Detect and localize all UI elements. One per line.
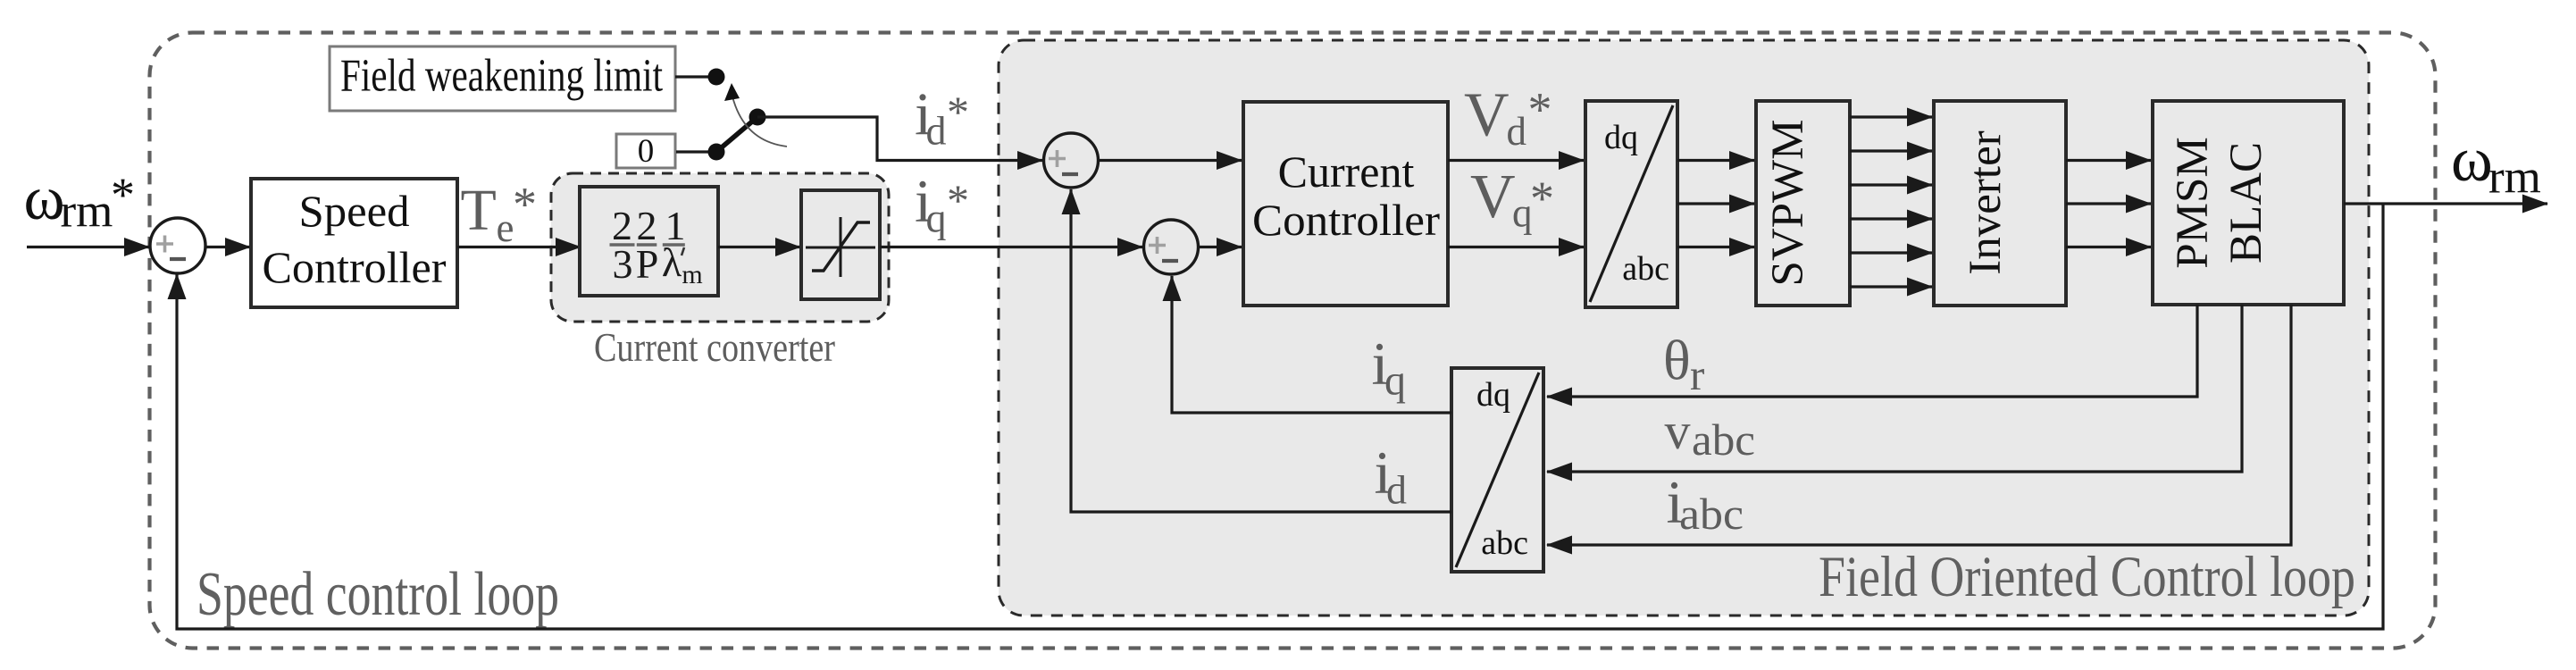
wire: omega_rm* input (27, 246, 149, 248)
svg-text:*: * (947, 87, 969, 137)
svg-text:PMSM: PMSM (2168, 137, 2218, 268)
label: omega_rm output (2451, 125, 2541, 204)
label: iq feedback (1372, 330, 1407, 405)
wire: SVPWM to Inverter gate 2 (1850, 149, 1932, 152)
block: PMSM BLAC (2153, 101, 2344, 305)
svg-text:θ: θ (1663, 329, 1691, 392)
block: feedback dq/abc transform (1451, 368, 1543, 572)
svg-text:*: * (1530, 172, 1554, 225)
block: SVPWM (1756, 101, 1850, 306)
wire: Inverter to PMSM phase a (2066, 159, 2151, 162)
label: i_abc (1667, 468, 1744, 539)
wire: SVPWM to Inverter gate 5 (1850, 251, 1932, 254)
svg-text:rm: rm (61, 186, 113, 238)
wire: fraction to saturation (718, 246, 800, 248)
svg-text:abc: abc (1692, 415, 1755, 465)
svg-text:SVPWM: SVPWM (1763, 119, 1813, 286)
wire: omega_rm output (2344, 202, 2547, 205)
wire: id* to J1 (757, 117, 1042, 161)
svg-text:P: P (636, 241, 659, 287)
svg-text:d: d (1507, 109, 1527, 154)
svg-text:dq: dq (1476, 376, 1510, 414)
summing junction J1 (1044, 133, 1099, 188)
block: Current Controller (1243, 102, 1448, 306)
label: id feedback (1375, 439, 1408, 513)
block: torque-to-current fraction (580, 187, 718, 296)
wire: theta_r feedback (1547, 305, 2197, 397)
block: dq to abc transform (1585, 101, 1677, 307)
svg-text:m: m (682, 260, 702, 289)
label: id* (915, 80, 969, 154)
label: theta_r (1663, 329, 1704, 400)
label: v_abc (1665, 402, 1756, 465)
wire: SVPWM to Inverter gate 1 (1850, 115, 1932, 118)
svg-text:Controller: Controller (263, 242, 447, 292)
svg-text:abc: abc (1481, 524, 1528, 562)
switch lever (716, 117, 757, 152)
wire: Vq* to dq/abc (1448, 246, 1584, 248)
block: Inverter (1934, 101, 2066, 306)
svg-text:q: q (926, 196, 947, 241)
svg-text:abc: abc (1679, 489, 1744, 539)
label: Vd* (1464, 81, 1552, 155)
wire: zero box to switch contact (676, 150, 710, 153)
wire: v_abc feedback (1547, 305, 2242, 472)
node: switch contact upper (708, 69, 725, 86)
svg-text:Field weakening limit: Field weakening limit (340, 51, 663, 102)
wire: SVPWM to Inverter gate 6 (1850, 285, 1932, 288)
svg-text:*: * (1528, 83, 1552, 137)
svg-text:rm: rm (2488, 152, 2541, 204)
svg-text:*: * (513, 178, 537, 231)
label: omega_rm* input (24, 164, 136, 238)
svg-text:V: V (1464, 81, 1510, 150)
svg-text:0: 0 (638, 133, 655, 170)
svg-text:Inverter: Inverter (1961, 130, 2011, 274)
svg-text:q: q (1384, 357, 1406, 405)
svg-text:v: v (1665, 402, 1691, 460)
node: switch contact lower (708, 144, 725, 161)
svg-text:d: d (926, 108, 947, 154)
svg-text:e: e (497, 205, 514, 250)
label: Te* (461, 178, 538, 251)
FOC shaded dashed region (999, 40, 2369, 616)
svg-text:d: d (1386, 467, 1407, 513)
wire: Inverter to PMSM phase c (2066, 246, 2151, 248)
switch rotation arc (732, 96, 787, 147)
svg-text:r: r (1690, 350, 1704, 399)
wire: Vd* to dq/abc (1448, 159, 1584, 162)
wire: feedback omega_rm long loop (177, 204, 2383, 629)
svg-text:*: * (947, 175, 969, 225)
svg-text:T: T (461, 178, 497, 243)
wire: iq feedback to J2 (1172, 276, 1451, 413)
svg-text:Current: Current (1278, 147, 1415, 197)
wire: dq/abc to SVPWM phase b (1677, 202, 1754, 205)
svg-text:Current converter: Current converter (594, 324, 835, 370)
wire: J0 to Speed Controller (205, 246, 250, 248)
block: saturation limiter (801, 190, 880, 299)
svg-text:Speed: Speed (299, 186, 410, 236)
label: Vq* (1470, 163, 1554, 236)
svg-text:ω: ω (2451, 125, 2493, 195)
svg-text:dq: dq (1604, 119, 1638, 156)
svg-text:abc: abc (1622, 250, 1669, 288)
wire: J2 to Current Controller (1199, 246, 1242, 248)
svg-text:ω: ω (24, 164, 65, 233)
block: Speed Controller (251, 179, 457, 307)
node: switch pole (749, 109, 766, 126)
wire: Inverter to PMSM phase b (2066, 202, 2151, 205)
label: iq* (915, 167, 969, 241)
summing junction J0 (150, 218, 205, 273)
wire: i_abc feedback (1547, 305, 2291, 545)
wire: Te* to current converter (457, 246, 581, 248)
wire: dq/abc to SVPWM phase c (1677, 246, 1754, 248)
wire: iq* to J2 (880, 246, 1142, 248)
wire: SVPWM to Inverter gate 4 (1850, 217, 1932, 220)
wire: SVPWM to Inverter gate 3 (1850, 183, 1932, 186)
wire: J1 to Current Controller (1099, 159, 1242, 162)
svg-text:Field Oriented Control loop: Field Oriented Control loop (1819, 545, 2355, 609)
wire: FW limit to switch contact (675, 75, 710, 78)
svg-text:*: * (111, 168, 135, 222)
svg-text:3: 3 (613, 241, 633, 287)
block: Field weakening limit (330, 46, 675, 111)
svg-text:Speed control loop: Speed control loop (197, 560, 559, 629)
svg-text:Controller: Controller (1252, 195, 1440, 245)
wire: id feedback to J1 (1071, 189, 1451, 512)
svg-text:BLAC: BLAC (2221, 142, 2271, 264)
wire: dq/abc to SVPWM phase a (1677, 159, 1754, 162)
summing junction J2 (1144, 220, 1199, 274)
Current converter dashed region (551, 173, 889, 322)
svg-text:V: V (1470, 163, 1516, 231)
block: zero reference (616, 134, 675, 168)
